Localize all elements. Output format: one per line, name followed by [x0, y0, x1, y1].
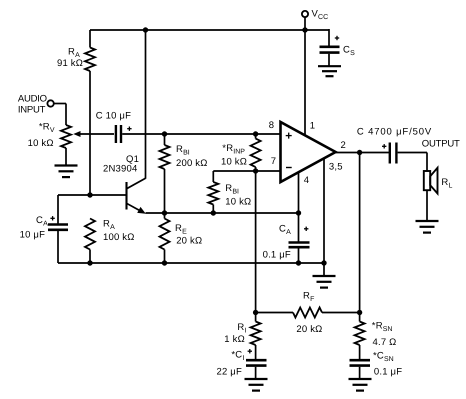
- node RBI10k bottom junction: [211, 210, 216, 215]
- svg-text:22 μF: 22 μF: [217, 366, 242, 377]
- resistor RF 20k: [256, 308, 360, 318]
- wire inverting node vertical: [255, 171, 257, 313]
- svg-text:10 kΩ: 10 kΩ: [28, 138, 54, 149]
- label CS: [343, 45, 355, 57]
- svg-text:OUTPUT: OUTPUT: [422, 138, 460, 149]
- node pin7 junction: [253, 168, 258, 173]
- capacitor CS: [320, 36, 340, 66]
- node RBI200k top junction: [162, 131, 167, 136]
- svg-text:AUDIO: AUDIO: [18, 93, 47, 104]
- svg-text:2N3904: 2N3904: [103, 164, 137, 175]
- wire emitter node: [146, 212, 299, 214]
- svg-text:1: 1: [310, 121, 315, 132]
- label OUTPUT: [422, 138, 460, 149]
- node RF left junction: [253, 310, 258, 315]
- svg-text:C 4700 μF/50V: C 4700 μF/50V: [357, 126, 432, 137]
- label RBI 200k: [176, 144, 208, 169]
- wire pin 7: [256, 170, 281, 172]
- svg-text:0.1 μF: 0.1 μF: [263, 249, 291, 260]
- svg-text:20 kΩ: 20 kΩ: [176, 236, 202, 247]
- capacitor CI 22uF: [246, 349, 267, 379]
- wire output: [336, 152, 389, 154]
- svg-text:2: 2: [341, 140, 346, 151]
- label Q1 2N3904: [103, 154, 139, 175]
- ground below CI: [245, 379, 268, 391]
- label RBI 10k: [225, 183, 251, 208]
- label RSN 4.7: [372, 321, 397, 348]
- node collector junction: [143, 27, 148, 32]
- svg-text:200 kΩ: 200 kΩ: [176, 158, 208, 169]
- svg-text:20 kΩ: 20 kΩ: [296, 324, 322, 335]
- wire collector to top rail: [145, 30, 147, 179]
- node emitter RBI200k junction: [162, 210, 167, 215]
- label RINP 10k: [221, 143, 247, 168]
- resistor RBI 200k: [160, 134, 170, 213]
- capacitor CSN 0.1uF: [350, 360, 371, 379]
- svg-text:91 kΩ: 91 kΩ: [57, 58, 83, 69]
- wire base node: [58, 194, 127, 196]
- capacitor CA 0.1uF: [289, 213, 310, 263]
- potentiometer RV 10k: [61, 125, 81, 166]
- ground below CS: [318, 66, 341, 76]
- resistor RE 20k: [160, 213, 170, 263]
- ground below RL: [416, 221, 439, 233]
- label RI 1k: [224, 322, 246, 345]
- wire pin 1: [304, 30, 306, 136]
- node output junction: [357, 150, 362, 155]
- label RF 20k: [296, 291, 322, 335]
- label pin 7: [271, 156, 276, 167]
- label CA 10uF: [20, 215, 48, 241]
- svg-text:10 kΩ: 10 kΩ: [221, 157, 247, 168]
- node RINP top junction: [253, 131, 258, 136]
- svg-text:100 kΩ: 100 kΩ: [103, 232, 135, 243]
- label pin 1: [310, 121, 315, 132]
- resistor RA 91k: [85, 30, 95, 195]
- svg-text:0.1 μF: 0.1 μF: [374, 366, 402, 377]
- resistor RBI 10k: [208, 171, 255, 213]
- ground below RV: [55, 166, 78, 178]
- svg-text:3,5: 3,5: [329, 162, 343, 173]
- resistor RA 100k: [85, 219, 95, 264]
- label C 4700uF 50V: [357, 126, 432, 137]
- resistor RSN 4.7: [355, 313, 365, 360]
- label RV 10k: [28, 122, 55, 150]
- wire wiper to coupling cap: [78, 133, 114, 135]
- node VCC junction: [302, 27, 307, 32]
- label CI 22uF: [217, 350, 245, 378]
- terminal audio input: [47, 100, 66, 125]
- svg-text:1 kΩ: 1 kΩ: [224, 334, 245, 345]
- wire cap to speaker: [398, 153, 427, 172]
- svg-text:4.7 Ω: 4.7 Ω: [373, 337, 397, 348]
- node RA100k ground junction: [87, 260, 92, 265]
- label RA 91k: [57, 47, 83, 70]
- wire output feedback vertical: [359, 153, 361, 313]
- wire Cs branch: [328, 29, 330, 46]
- label C 10uF: [96, 110, 131, 121]
- transistor Q1: [127, 178, 146, 213]
- svg-text:7: 7: [271, 156, 276, 167]
- node ground bus end junction: [321, 260, 326, 265]
- label AUDIO INPUT: [18, 93, 47, 115]
- resistor RINP 10k: [251, 134, 261, 171]
- svg-text:8: 8: [269, 120, 274, 131]
- wire pin 4: [298, 172, 300, 213]
- label RE 20k: [175, 223, 202, 247]
- speaker RL: [424, 168, 438, 221]
- svg-text:INPUT: INPUT: [18, 105, 46, 116]
- capacitor C 10uF coupling: [116, 125, 132, 143]
- wire ground bus: [58, 262, 324, 264]
- svg-text:10 μF: 10 μF: [20, 230, 45, 241]
- label RL: [441, 177, 452, 189]
- capacitor CA 10uF: [48, 195, 68, 263]
- label CA 0.1uF: [263, 224, 291, 261]
- label pin 8: [269, 120, 274, 131]
- label VCC: [312, 9, 329, 21]
- label CSN 0.1uF: [373, 351, 402, 378]
- ground below CSN: [349, 379, 372, 391]
- label RA 100k: [103, 219, 135, 244]
- capacitor C 4700uF: [382, 143, 396, 164]
- power VCC terminal: [302, 11, 308, 30]
- label pins 3 5: [329, 162, 343, 173]
- wire pins 3 5: [323, 159, 325, 264]
- svg-text:4: 4: [304, 175, 309, 186]
- wire cap C to pin 8: [122, 133, 280, 135]
- node base junction: [87, 192, 92, 197]
- node RF right junction: [357, 310, 362, 315]
- svg-text:C 10 μF: C 10 μF: [96, 110, 131, 121]
- svg-text:10 kΩ: 10 kΩ: [225, 197, 251, 208]
- ground main: [313, 263, 336, 288]
- wire top supply rail: [90, 29, 329, 31]
- node CA ground junction: [296, 260, 301, 265]
- op-amp U1: [281, 122, 336, 182]
- node pin4 CA junction: [296, 210, 301, 215]
- node RE ground junction: [162, 260, 167, 265]
- label pin 2: [341, 140, 346, 151]
- label pin 4: [304, 175, 309, 186]
- resistor RI 1k: [251, 313, 261, 360]
